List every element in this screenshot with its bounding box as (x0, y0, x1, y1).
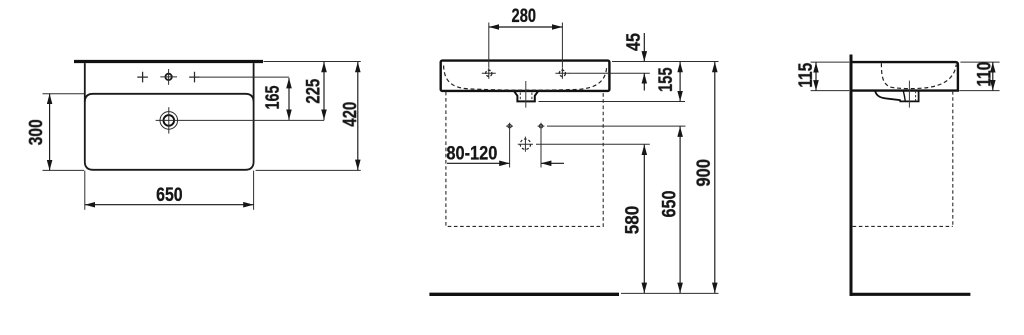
drain hole (top view) (164, 115, 175, 126)
centerline (side view) (908, 81, 910, 108)
extension mounting holes right (547, 125, 686, 127)
bowl top edge (85, 94, 254, 102)
extension rim top right (612, 61, 719, 63)
bowl hidden contour side (dashed) (881, 63, 956, 88)
dimension 650 (top view) (85, 204, 254, 206)
wall (thick) (850, 55, 853, 296)
drain hidden wall (dashed) (915, 91, 917, 101)
extension line 650 right vertical (253, 171, 255, 210)
extension tap row right (front) (569, 72, 650, 74)
svg-text:900: 900 (694, 159, 715, 187)
alternate tap mark right (189, 72, 200, 83)
svg-text:155: 155 (656, 67, 677, 92)
svg-text:115: 115 (796, 62, 817, 87)
extension basin bottom left of wall (811, 90, 850, 92)
hidden pedestal outline (dashed) (446, 92, 603, 227)
dimension 80-120 (outside arrows) (447, 162, 510, 164)
svg-text:300: 300 (26, 119, 47, 145)
centerline (front view) (525, 81, 527, 108)
basin outer outline (85, 63, 254, 170)
extension line tap row right (200, 76, 289, 78)
extension basin bottom right of basin (959, 90, 999, 92)
extension mounting holes down left (509, 130, 511, 168)
extension line 650 left vertical (84, 171, 86, 210)
extension rim top left of wall (811, 61, 850, 63)
dimension 165 (288, 78, 290, 120)
tap hole right (front view) (559, 70, 565, 76)
alternate tap mark left (137, 72, 148, 83)
extension line drain right (182, 119, 324, 121)
drain inner wall (903, 91, 905, 101)
svg-text:225: 225 (303, 78, 324, 103)
siphon outlet circle (dashed) (520, 139, 530, 149)
bowl hidden contour (dashed) (444, 66, 607, 91)
svg-text:110: 110 (974, 62, 995, 87)
dimension 580 (643, 145, 645, 293)
dimension 115 (815, 62, 817, 90)
extension rim top right of basin (960, 61, 999, 63)
hidden pedestal outline side (dashed) (853, 91, 953, 226)
mounting hole left (508, 124, 512, 128)
basin side profile (853, 62, 958, 91)
dimension 280 (489, 26, 563, 28)
svg-text:580: 580 (623, 206, 644, 235)
svg-text:420: 420 (340, 102, 361, 127)
extension line bowl top left (43, 93, 85, 95)
tap hole left (front view) (486, 70, 492, 76)
dimension 420 (357, 62, 359, 170)
tap hole crosshair (160, 76, 177, 78)
basin front outline (441, 61, 610, 91)
extension line front edge right (256, 169, 361, 171)
extension mounting holes down right (540, 130, 542, 168)
dimension 650 (front view) (679, 127, 681, 294)
floor (side view, thick) (850, 293, 971, 296)
extension drain bottom right (539, 101, 686, 103)
svg-text:45: 45 (624, 33, 645, 51)
extension line back edge right (264, 61, 361, 63)
floor (front view, thick) (429, 293, 619, 296)
dimension 110 (992, 62, 994, 90)
extension 280 left (488, 23, 490, 68)
dimension 155 (679, 62, 681, 101)
extension line front edge left (43, 169, 85, 171)
floor extension line (621, 292, 719, 294)
svg-text:280: 280 (512, 6, 537, 27)
tap hole (top view) (165, 74, 171, 80)
extension 280 right (561, 23, 563, 68)
drain outlet hidden walls (520, 93, 532, 101)
dimension 45 (outside arrows) (643, 33, 645, 62)
wall back edge (thick) (74, 60, 263, 63)
drain outlet (front view) (514, 91, 538, 101)
dimension 300 (49, 94, 51, 171)
extension siphon right (536, 143, 650, 145)
mounting hole right (539, 124, 543, 128)
svg-text:650: 650 (659, 191, 680, 218)
dimension 225 (323, 62, 325, 120)
svg-text:80-120: 80-120 (446, 143, 497, 164)
svg-text:165: 165 (263, 85, 284, 109)
dimension 900 (714, 62, 716, 293)
svg-text:650: 650 (156, 185, 183, 206)
drain crosshair (156, 119, 182, 121)
drain channel profile (875, 91, 919, 102)
